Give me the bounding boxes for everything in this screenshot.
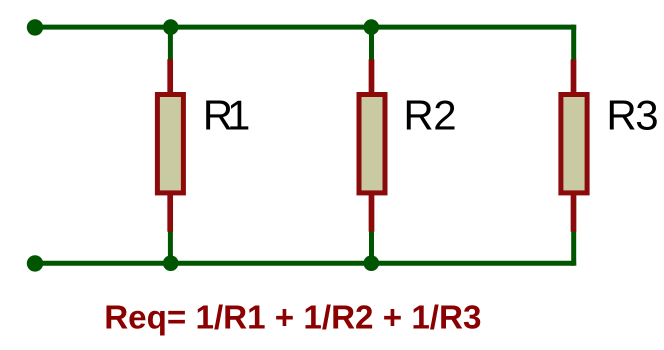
pin R2 bottom	[369, 194, 375, 232]
wire stub R1 top	[168, 27, 173, 59]
wire stub R2 bottom	[369, 232, 374, 264]
resistor R1 body	[157, 95, 183, 193]
terminal node top-left	[27, 19, 43, 35]
wire bottom-right corner up from R3	[574, 232, 577, 264]
resistor R2 body	[359, 95, 385, 193]
junction node top R2	[364, 19, 380, 35]
pin R2 top	[369, 59, 375, 94]
wire bottom horizontal	[35, 261, 574, 266]
resistor R3 body	[561, 95, 587, 193]
junction node bottom R2	[364, 255, 380, 271]
pin R3 top	[571, 59, 577, 94]
wire stub R2 top	[369, 27, 374, 59]
pin R1 bottom	[167, 194, 173, 232]
wire top-right corner down to R3	[574, 27, 577, 59]
junction node bottom R1	[163, 255, 179, 271]
svg-text:R2: R2	[403, 91, 456, 138]
junction node top R1	[163, 19, 179, 35]
svg-text:Req= 1/R1 + 1/R2 + 1/R3: Req= 1/R1 + 1/R2 + 1/R3	[104, 300, 481, 337]
wire top horizontal	[35, 25, 574, 30]
wire stub R1 bottom	[168, 232, 173, 264]
svg-text:R3: R3	[606, 91, 658, 138]
pin R3 bottom	[571, 194, 577, 232]
pin R1 top	[167, 59, 173, 94]
terminal node bottom-left	[27, 255, 43, 271]
svg-text:R1: R1	[203, 91, 251, 138]
